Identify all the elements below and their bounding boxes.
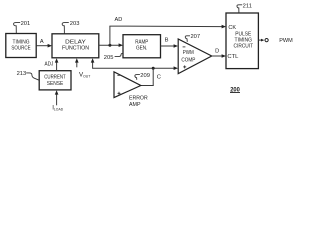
delay function block 203 — [52, 34, 99, 58]
wire Iload into current sense — [56, 93, 58, 105]
svg-text:B: B — [165, 38, 169, 44]
svg-text:SENSE: SENSE — [47, 81, 64, 87]
svg-text:207: 207 — [190, 34, 200, 40]
op-amp ERROR AMP 209 — [114, 72, 141, 98]
wire A: timing source to delay function — [36, 45, 48, 47]
svg-text:209: 209 — [140, 73, 150, 79]
label 207 leader — [185, 36, 190, 42]
label 209 leader — [135, 75, 140, 80]
svg-text:211: 211 — [243, 4, 252, 10]
wire error amp output up to node C — [152, 68, 154, 85]
svg-text:AMP: AMP — [129, 102, 141, 108]
svg-text:SOURCE: SOURCE — [11, 46, 30, 52]
junction node — [108, 44, 111, 47]
svg-text:D: D — [215, 48, 219, 54]
label 203 leader — [62, 23, 69, 34]
svg-text:CTL: CTL — [227, 54, 238, 60]
svg-text:COMP: COMP — [181, 57, 195, 63]
svg-text:CURRENT: CURRENT — [44, 75, 66, 81]
label 201 leader — [14, 23, 21, 34]
label 211 leader — [237, 5, 242, 13]
svg-text:FUNCTION: FUNCTION — [62, 46, 89, 52]
svg-text:203: 203 — [70, 21, 80, 27]
svg-text:TIMING: TIMING — [13, 39, 30, 45]
svg-text:PWM: PWM — [183, 50, 194, 56]
wire ADJ: current sense to delay function — [56, 61, 58, 70]
svg-text:AD: AD — [115, 17, 123, 23]
wire D: comparator to pulse timing circuit — [212, 55, 223, 57]
wire AD vertical — [109, 26, 111, 45]
svg-text:DELAY: DELAY — [65, 40, 86, 46]
pulse timing circuit block 211 — [226, 13, 258, 69]
svg-text:201: 201 — [21, 21, 31, 27]
svg-text:CK: CK — [228, 25, 236, 31]
op-amp PWM COMP 207 — [178, 39, 212, 74]
svg-text:ERROR: ERROR — [129, 95, 148, 101]
svg-text:GEN.: GEN. — [136, 46, 148, 52]
wire AD horizontal to CK — [109, 25, 222, 28]
wire Vout stub into delay function — [76, 61, 78, 67]
current sense block 213 — [39, 71, 71, 90]
wire C horizontal — [93, 67, 175, 69]
wire B: ramp to comparator — [161, 45, 175, 47]
svg-text:PWM: PWM — [279, 38, 293, 44]
svg-text:ADJ: ADJ — [45, 62, 54, 68]
label 213 leader — [26, 73, 39, 80]
svg-text:A: A — [40, 39, 44, 45]
svg-text:205: 205 — [104, 55, 114, 61]
PWM output wire with open terminal — [259, 39, 263, 41]
wire C up into delay function — [92, 61, 94, 68]
svg-text:213: 213 — [17, 71, 27, 77]
junction node C — [152, 67, 155, 70]
svg-text:C: C — [157, 74, 161, 80]
ramp gen block 205 — [123, 35, 161, 58]
timing source block 201 — [6, 34, 36, 58]
svg-text:CIRCUIT: CIRCUIT — [234, 43, 254, 49]
wire delay to ramp — [99, 44, 120, 46]
label 205 leader — [115, 53, 124, 56]
